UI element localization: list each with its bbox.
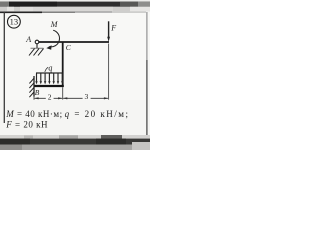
svg-text:M = 40 кН·м;: M = 40 кН·м; bbox=[5, 109, 62, 119]
svg-text:B: B bbox=[35, 88, 40, 97]
svg-text:2: 2 bbox=[48, 92, 52, 101]
svg-text:M: M bbox=[50, 20, 59, 29]
svg-text:F = 20 кН: F = 20 кН bbox=[5, 119, 48, 129]
svg-text:A: A bbox=[25, 35, 31, 44]
svg-text:13: 13 bbox=[10, 17, 19, 27]
svg-text:3: 3 bbox=[85, 92, 89, 101]
svg-text:q = 20 кН/м;: q = 20 кН/м; bbox=[65, 109, 130, 119]
svg-text:F: F bbox=[110, 24, 116, 33]
svg-text:q: q bbox=[48, 63, 52, 72]
